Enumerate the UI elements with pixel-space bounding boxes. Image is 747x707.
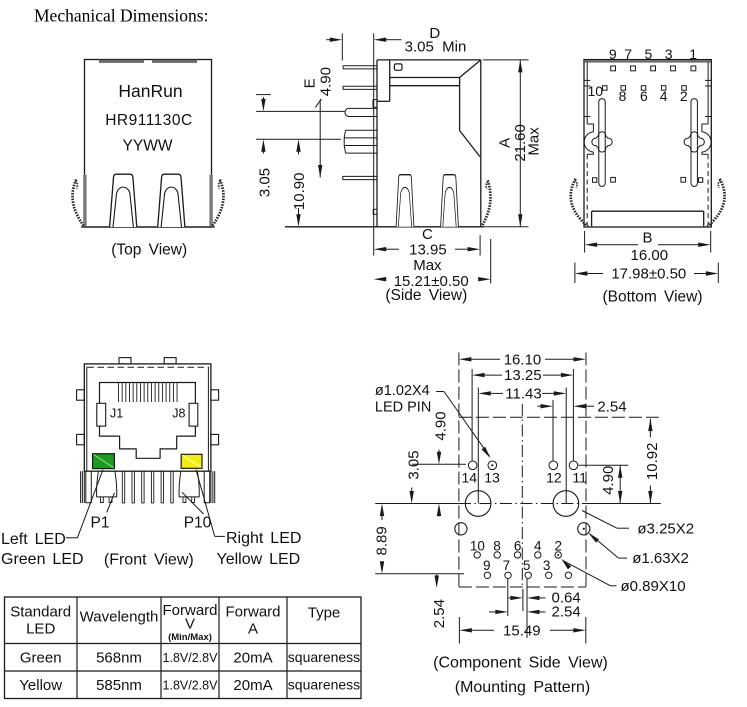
svg-text:A: A	[497, 138, 514, 148]
bottom view top shield band	[585, 60, 711, 62]
bottom view right inner edge	[702, 62, 711, 225]
front view side tabs	[77, 390, 219, 445]
bottom view pin pads row 1 (9 7 5 3 1)	[611, 66, 696, 71]
front view outer shell	[84, 364, 211, 471]
svg-text:J8: J8	[172, 407, 185, 421]
svg-text:Green: Green	[20, 649, 62, 666]
dimension 16.10	[459, 351, 586, 368]
svg-text:(Bottom View): (Bottom View)	[602, 288, 702, 305]
svg-text:1.8V/2.8V: 1.8V/2.8V	[163, 651, 219, 665]
leader to hole 13	[436, 392, 492, 460]
dimension 3.05 left	[406, 450, 423, 503]
dimension 4.90 left	[433, 411, 450, 516]
svg-text:8.89: 8.89	[374, 526, 391, 555]
side view pin 2	[343, 86, 377, 89]
left tick at LED pin row	[412, 463, 466, 465]
bottom view left keyhole slot	[592, 99, 612, 187]
svg-text:Yellow: Yellow	[19, 677, 62, 694]
yellow LED	[181, 454, 202, 468]
dimension C 13.95 Max	[374, 226, 480, 274]
dimension 10.92 right	[644, 419, 661, 504]
svg-text:4.90: 4.90	[600, 466, 617, 495]
bottom view pin numbers 9 7 5 3 1	[609, 46, 697, 62]
svg-text:squareness: squareness	[288, 649, 360, 665]
svg-text:10: 10	[470, 538, 485, 553]
table row Green	[20, 649, 360, 667]
dimension 2.54 top right	[537, 398, 626, 415]
mounting pattern dashed outline left edge	[458, 353, 460, 588]
svg-text:9: 9	[483, 558, 491, 573]
svg-text:Wavelength: Wavelength	[80, 609, 159, 626]
dimension 2.54 bottom left	[431, 575, 448, 629]
svg-text:11.43: 11.43	[505, 386, 541, 403]
svg-text:Green LED: Green LED	[1, 551, 84, 568]
svg-text:3.05: 3.05	[257, 168, 274, 197]
side view vent square	[394, 64, 402, 70]
side view body outline	[285, 60, 484, 227]
label P10 with leader	[182, 492, 212, 531]
bottom view front lip	[592, 211, 704, 226]
svg-text:12: 12	[546, 470, 562, 486]
extension line hole 11	[572, 369, 574, 461]
svg-text:2.54: 2.54	[597, 398, 626, 415]
side view pin 4	[343, 176, 377, 179]
svg-text:J1: J1	[110, 407, 123, 421]
small pin holes row 9 7 5 3 1	[484, 572, 571, 578]
svg-text:20mA: 20mA	[233, 649, 272, 666]
extension line hole 14	[471, 369, 473, 461]
leader diameter 0.89	[560, 557, 686, 595]
dimension 13.25	[472, 367, 573, 384]
svg-text:7: 7	[503, 558, 511, 573]
labels 14 13 12 11	[462, 470, 588, 486]
svg-text:4.90: 4.90	[433, 411, 450, 440]
svg-text:16.00: 16.00	[631, 247, 669, 264]
extension line big hole left	[477, 388, 479, 504]
svg-text:2: 2	[554, 538, 562, 553]
svg-text:(Side View): (Side View)	[385, 287, 467, 304]
svg-text:1: 1	[689, 46, 697, 62]
front view shield pin right	[204, 471, 210, 503]
svg-text:13.25: 13.25	[504, 367, 542, 384]
bottom view left inner edge	[584, 62, 593, 225]
leader diameter 3.25	[582, 511, 694, 538]
svg-text:(Front View): (Front View)	[104, 551, 194, 568]
front view P10 LED pin	[179, 471, 199, 502]
svg-text:(Component Side View): (Component Side View)	[433, 654, 608, 671]
svg-text:B: B	[642, 229, 652, 246]
small pin holes row 10 8 6 4 2	[474, 552, 561, 558]
top view shield tabs	[99, 60, 197, 63]
svg-text:Forward: Forward	[225, 604, 280, 621]
extension line hole 7	[507, 579, 509, 616]
svg-text:11: 11	[572, 470, 587, 486]
LED pin holes 14 13 12 11	[468, 461, 577, 470]
svg-text:6: 6	[514, 538, 522, 553]
dimension 0.64	[509, 590, 581, 607]
svg-text:13.95: 13.95	[409, 241, 447, 258]
side view small tick	[256, 94, 271, 96]
dimension E vertical line	[315, 99, 322, 177]
dimension 10.90	[291, 139, 308, 227]
bottom view anchor squares	[593, 177, 703, 182]
side view top bevel	[377, 60, 481, 157]
svg-text:2.54: 2.54	[431, 599, 448, 628]
svg-text:Max: Max	[526, 127, 543, 156]
front view P1 LED pin	[97, 471, 117, 502]
svg-text:ø1.63X2: ø1.63X2	[632, 550, 689, 567]
front view right wall legs	[211, 471, 215, 503]
front view center pins	[122, 471, 173, 503]
svg-text:(Top View): (Top View)	[111, 242, 187, 259]
svg-text:1.8V/2.8V: 1.8V/2.8V	[163, 678, 219, 692]
dimension D extension lines	[342, 33, 373, 255]
svg-text:14: 14	[462, 470, 478, 486]
side view bent pin 3	[345, 108, 377, 116]
side view connector stack	[344, 130, 377, 153]
svg-text:P10: P10	[184, 515, 212, 532]
side view datum line lower	[256, 138, 341, 140]
svg-text:(Mounting Pattern): (Mounting Pattern)	[455, 679, 591, 696]
side view notch above pin 3	[373, 100, 377, 108]
leader to Right LED	[196, 470, 225, 537]
front view left latch slot	[97, 403, 106, 426]
top view left latch	[110, 174, 137, 227]
dimension 17.98 +/-0.50	[575, 263, 718, 284]
dimension D 3.05 Min	[326, 25, 466, 55]
front view top tabs	[119, 358, 176, 364]
svg-text:(Min/Max): (Min/Max)	[168, 632, 212, 643]
label P1 with leader	[91, 493, 115, 532]
table header Forward A	[225, 604, 280, 638]
leader diameter 1.63	[587, 531, 689, 567]
dimension A 21.60 Max	[483, 60, 543, 227]
green LED	[93, 454, 115, 469]
dimension 2.54 bottom	[489, 604, 581, 621]
labels 9 7 5 3	[483, 558, 550, 573]
dimension E 4.90 labels	[302, 67, 335, 96]
mounting pattern dashed bottom edge	[459, 586, 586, 588]
svg-text:V: V	[185, 616, 195, 633]
side view pin 1	[343, 66, 377, 69]
svg-text:6: 6	[640, 88, 648, 104]
side view spring clip	[482, 181, 491, 227]
bottom view pin numbers 10 8 6 4 2	[588, 83, 688, 104]
horizontal centerline	[375, 503, 661, 505]
medium holes	[455, 523, 590, 535]
dimension 4.90 right	[600, 465, 623, 503]
dimension 11.43	[478, 386, 566, 403]
svg-text:8: 8	[619, 88, 627, 104]
LED spec table grid	[5, 597, 362, 699]
dimension 3.05 left	[257, 97, 274, 197]
side view left latch	[396, 175, 414, 227]
dimension 8.89 left	[374, 504, 391, 574]
svg-text:20mA: 20mA	[233, 677, 272, 694]
svg-text:568nm: 568nm	[96, 649, 142, 666]
dimension 15.21 +/-0.50	[374, 239, 491, 290]
front view dashed shield seam	[88, 366, 208, 368]
svg-text:A: A	[248, 621, 258, 638]
svg-text:Max: Max	[413, 257, 442, 274]
svg-text:2.54: 2.54	[552, 604, 581, 621]
extension line hole 12	[552, 400, 554, 461]
svg-text:Left LED: Left LED	[1, 531, 66, 548]
svg-text:Yellow LED: Yellow LED	[217, 551, 301, 568]
bottom view left spring clip	[571, 179, 588, 227]
big mounting holes	[465, 491, 578, 517]
svg-text:ø0.89X10: ø0.89X10	[621, 578, 686, 595]
svg-text:17.98±0.50: 17.98±0.50	[611, 266, 686, 283]
top view right spring clip	[212, 180, 223, 227]
svg-text:3.05: 3.05	[406, 450, 423, 479]
svg-text:P1: P1	[91, 515, 110, 532]
svg-text:ø1.02X4: ø1.02X4	[375, 383, 430, 399]
svg-text:3.05 Min: 3.05 Min	[405, 38, 467, 55]
svg-text:3: 3	[665, 46, 673, 62]
svg-text:Mechanical Dimensions:: Mechanical Dimensions:	[34, 6, 208, 26]
dimension 15.49	[459, 617, 585, 644]
mounting pattern dashed top edge	[459, 416, 661, 418]
svg-text:5: 5	[523, 558, 531, 573]
front view contact comb	[119, 383, 178, 402]
side view right latch	[441, 175, 459, 227]
side view datum line upper	[256, 110, 344, 112]
svg-text:LED PIN: LED PIN	[375, 399, 431, 415]
vertical centerline	[521, 404, 523, 587]
svg-text:15.49: 15.49	[503, 622, 541, 639]
svg-text:4: 4	[534, 538, 542, 553]
svg-text:10.90: 10.90	[291, 173, 308, 211]
extension line hole 5	[526, 579, 528, 638]
svg-text:585nm: 585nm	[96, 677, 142, 694]
labels 10 8 6 4 2	[470, 538, 562, 553]
svg-text:2: 2	[680, 88, 688, 104]
extension line big hole right	[565, 388, 567, 504]
top view left spring clip	[73, 180, 84, 227]
svg-text:HanRun: HanRun	[118, 81, 182, 101]
dimension B 16.00	[585, 229, 711, 263]
top view body outline	[81, 60, 215, 228]
side view notch on left edge	[373, 209, 377, 214]
svg-text:ø3.25X2: ø3.25X2	[637, 520, 694, 537]
svg-text:9: 9	[609, 46, 617, 62]
svg-text:4: 4	[660, 88, 668, 104]
extension line pin row 9	[375, 573, 464, 575]
front view left wall legs	[81, 471, 85, 503]
front view shield pin left	[86, 471, 92, 503]
bottom view body outline	[584, 60, 711, 227]
svg-text:HR911130C: HR911130C	[105, 112, 193, 129]
svg-text:Type: Type	[308, 605, 341, 622]
front view right latch slot	[189, 403, 198, 426]
bottom view right spring clip	[707, 179, 724, 227]
svg-text:8: 8	[493, 538, 501, 553]
mounting pattern dashed outline right edge	[585, 353, 587, 588]
LED pin label	[375, 383, 431, 416]
svg-text:squareness: squareness	[288, 676, 360, 692]
svg-text:LED: LED	[26, 621, 55, 638]
table header Forward V	[162, 602, 217, 643]
svg-text:E: E	[302, 78, 319, 88]
svg-text:5: 5	[645, 46, 653, 62]
svg-text:4.90: 4.90	[318, 67, 335, 96]
svg-text:10: 10	[588, 83, 604, 99]
right tick at LED pin row	[579, 464, 629, 466]
svg-text:13: 13	[484, 470, 500, 486]
svg-text:Right LED: Right LED	[226, 530, 301, 547]
svg-text:Standard: Standard	[10, 604, 71, 621]
leader to Left LED	[66, 470, 103, 538]
svg-text:16.10: 16.10	[504, 351, 542, 368]
extension centerline below	[522, 589, 524, 611]
top view side shield edges	[83, 175, 213, 227]
front view jack opening	[100, 383, 196, 459]
table header Standard LED	[10, 604, 71, 638]
svg-text:7: 7	[624, 46, 632, 62]
top view right latch	[158, 174, 185, 227]
svg-text:YYWW: YYWW	[123, 138, 173, 155]
table row Yellow	[19, 676, 360, 694]
bottom view pin pads row 2 (10 8 6 4 2)	[603, 86, 687, 91]
svg-text:10.92: 10.92	[644, 443, 661, 481]
bottom view right keyhole slot	[684, 99, 704, 187]
svg-text:3: 3	[543, 558, 551, 573]
